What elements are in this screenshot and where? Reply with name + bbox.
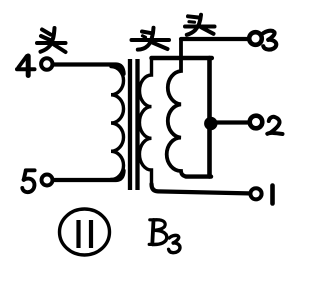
- secondary winding B: [167, 40, 211, 177]
- label terminal 4: [17, 56, 35, 76]
- label terminal 1: [270, 186, 275, 204]
- label terminal 3: [263, 31, 276, 50]
- junction node (tap): [204, 117, 217, 130]
- label terminal 5: [22, 170, 34, 192]
- wire: winding B top to terminal 3: [181, 37, 249, 41]
- label subscript 3 of B3: [169, 235, 180, 252]
- wire: winding A top across to right vertical: [152, 56, 212, 61]
- winding-start mark (tou) over terminal 4: [37, 28, 66, 52]
- transformer core line 2: [135, 59, 139, 190]
- wire: winding B bottom run to right vertical: [186, 174, 211, 178]
- winding-start mark (tou) over winding A: [132, 28, 170, 50]
- transformer B3 primary winding: [111, 67, 124, 180]
- terminal 3: [249, 32, 262, 45]
- secondary winding A (next to core): [139, 58, 151, 186]
- terminal 4: [41, 58, 52, 69]
- label terminal 2: [267, 117, 282, 134]
- label B of B3: [149, 220, 167, 245]
- terminal 5: [42, 175, 53, 186]
- wire: winding A bottom to terminal 1: [152, 184, 249, 193]
- figure number circle (II): [60, 209, 110, 255]
- wire terminal5 to primary bottom: [53, 171, 124, 181]
- transformer core line 1: [128, 59, 132, 190]
- wire: right vertical from A-top wire down to B-bottom wire: [207, 58, 212, 177]
- wire: junction tap to terminal 2: [210, 120, 249, 124]
- terminal 1: [250, 188, 261, 199]
- winding-start mark (tou) over winding B / terminal 3: [185, 15, 215, 35]
- wire terminal4 to primary top: [53, 65, 124, 75]
- terminal 2: [250, 116, 263, 129]
